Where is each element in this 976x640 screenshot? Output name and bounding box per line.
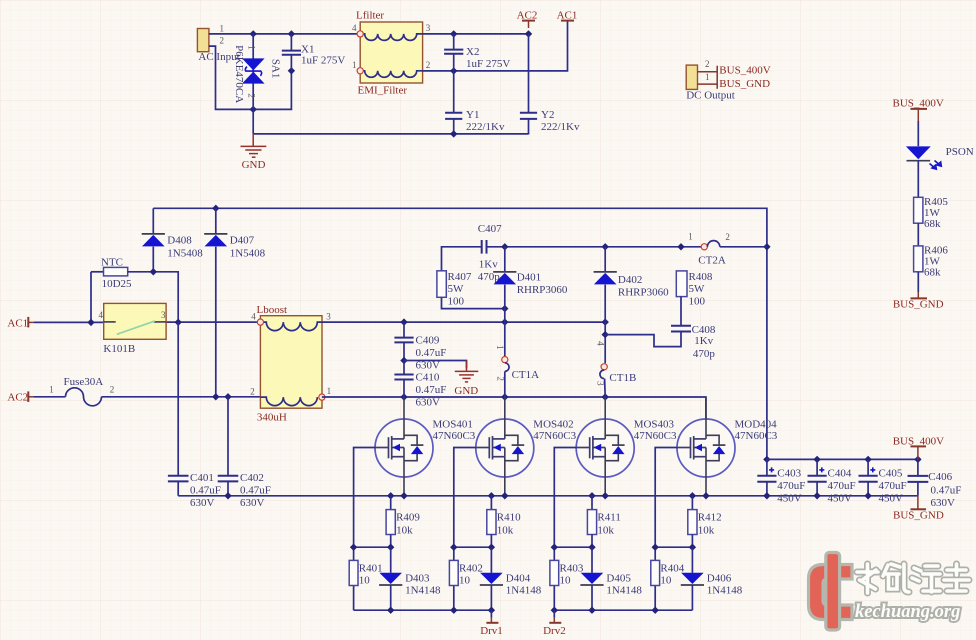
svg-text:10k: 10k	[698, 524, 715, 536]
current transformer CT1B	[601, 364, 607, 370]
svg-text:1N5408: 1N5408	[167, 247, 203, 259]
resistor R409 10k	[390, 496, 392, 510]
diode D405 1N4148	[591, 547, 593, 573]
svg-text:C403: C403	[777, 468, 801, 480]
svg-text:2: 2	[220, 36, 225, 46]
junction R404 column on Drv2 rail	[652, 607, 659, 614]
svg-text:MOS401: MOS401	[433, 419, 473, 431]
wire R412 bottom to gate node	[691, 535, 693, 548]
capacitor Y2	[528, 34, 530, 113]
power port BUS_GND right column	[917, 292, 919, 298]
junction X2 bottom	[450, 67, 457, 74]
junction X2 top	[450, 30, 457, 37]
resistor R411 10k	[591, 496, 593, 510]
svg-text:68k: 68k	[924, 267, 941, 279]
svg-text:GND: GND	[454, 385, 478, 397]
svg-text:0.47uF: 0.47uF	[240, 485, 271, 497]
wire R410 bottom to gate node	[490, 535, 492, 548]
resistor R402 10 gate resistor	[449, 560, 458, 585]
connector DC Output	[686, 65, 697, 89]
svg-text:3: 3	[595, 381, 605, 386]
svg-text:BUS_400V: BUS_400V	[893, 98, 944, 110]
svg-text:D404: D404	[506, 572, 531, 584]
diode D404 1N4148	[490, 547, 492, 573]
svg-text:470uF: 470uF	[777, 480, 805, 492]
junction D401/CT1A column on pin3 wire	[501, 318, 508, 325]
capacitor C403 470uF electrolytic	[766, 459, 768, 475]
junction gate node 2 left	[450, 544, 457, 551]
svg-text:630V: 630V	[416, 396, 441, 408]
junction gate node 4 left	[652, 544, 659, 551]
svg-text:R402: R402	[459, 562, 483, 574]
wire snubber cathode rail with C407 and CT2A	[442, 247, 767, 271]
resistor R406	[914, 246, 923, 272]
svg-text:4: 4	[352, 23, 357, 33]
junction D407 anode on AC2	[212, 393, 219, 400]
wire AC1 to relay pin4	[34, 321, 104, 323]
svg-text:R403: R403	[560, 562, 584, 574]
pin 1 of DC Output	[698, 83, 718, 85]
pin 4 of Lfilter with dot	[357, 31, 363, 37]
junction D402 cathode on snubber rail	[602, 243, 609, 250]
svg-text:R409: R409	[396, 512, 420, 524]
svg-text:68k: 68k	[924, 218, 941, 230]
svg-text:2: 2	[725, 232, 730, 242]
svg-text:450V: 450V	[828, 493, 853, 505]
capacitor C408	[671, 325, 691, 327]
wire drive rail 2 (Drv2)	[554, 609, 692, 611]
resistor R410 10k	[490, 496, 492, 510]
resistor R403 10 gate resistor	[550, 560, 559, 585]
junction R411 top on source rail	[588, 492, 595, 499]
capacitor C405 470uF electrolytic	[867, 459, 869, 475]
wire main drain rail from Lboost pin1	[322, 397, 706, 419]
net label bar of DC Output	[716, 66, 718, 89]
svg-text:NTC: NTC	[101, 256, 123, 268]
svg-text:3: 3	[326, 311, 331, 321]
wire bulk cap positive rail	[767, 458, 918, 460]
junction C404 bottom	[813, 492, 820, 499]
svg-text:3: 3	[161, 310, 166, 320]
junction Y1 bottom on ground rail	[450, 130, 457, 137]
svg-text:222/1Kv: 222/1Kv	[541, 121, 580, 133]
wire top bus rail from D408 to right vertical	[153, 208, 767, 459]
svg-text:5W: 5W	[448, 283, 465, 295]
svg-text:0.47uF: 0.47uF	[416, 384, 447, 396]
capacitor C410	[403, 361, 405, 375]
svg-text:C406: C406	[928, 471, 952, 483]
junction R402 column on Drv1 rail	[450, 607, 457, 614]
junction R412 top on source rail	[689, 492, 696, 499]
svg-text:MOD404: MOD404	[735, 419, 778, 431]
svg-text:450V: 450V	[777, 493, 802, 505]
power port BUS_GND at bulk caps	[917, 496, 919, 510]
svg-text:47N60C3: 47N60C3	[634, 430, 677, 442]
junction gate node 1 right	[387, 544, 394, 551]
svg-text:D401: D401	[517, 272, 541, 284]
svg-text:D406: D406	[707, 572, 732, 584]
junction Drv1 stub	[488, 607, 495, 614]
svg-text:C407: C407	[478, 223, 502, 235]
svg-text:1W: 1W	[924, 207, 941, 219]
winding bottom of Lfilter	[363, 71, 422, 78]
svg-text:R404: R404	[660, 562, 684, 574]
winding top of Lfilter	[363, 34, 422, 41]
junction MOS403 source on source rail	[602, 492, 609, 499]
svg-text:10: 10	[359, 574, 371, 586]
svg-text:R407: R407	[448, 271, 472, 283]
pin 1 of Lboost with dot	[319, 394, 325, 400]
svg-text:100: 100	[689, 296, 706, 308]
svg-text:C408: C408	[692, 324, 716, 336]
watermark kechuang logo	[809, 553, 853, 631]
svg-text:1: 1	[495, 345, 505, 350]
wire relay pin3 to Lboost pin4	[166, 321, 257, 323]
svg-text:1N4148: 1N4148	[506, 585, 542, 597]
current transformer CT1A	[502, 357, 508, 363]
svg-text:C401: C401	[190, 472, 214, 484]
diode D408 1N5408	[152, 208, 154, 233]
junction C408 branch on D402 column	[602, 331, 609, 338]
svg-text:Lfilter: Lfilter	[356, 10, 384, 22]
svg-text:470p: 470p	[693, 348, 716, 360]
TVS SA1 bidirectional suppressor	[252, 34, 254, 110]
junction gate node 4 right	[689, 544, 696, 551]
svg-text:1Kv: 1Kv	[479, 259, 498, 271]
svg-text:10: 10	[459, 574, 471, 586]
pin 2 of DC Output	[698, 71, 718, 73]
svg-text:1: 1	[220, 24, 225, 34]
resistor R401 10 gate resistor	[349, 560, 358, 585]
svg-text:CT1A: CT1A	[512, 369, 540, 381]
svg-text:Y2: Y2	[541, 109, 554, 121]
junction D407 top	[212, 205, 219, 212]
svg-text:10k: 10k	[497, 524, 514, 536]
wire gate of MOS401 down to drive network	[354, 448, 375, 611]
wire R411 bottom to gate node	[591, 535, 593, 548]
junction C405 bottom	[864, 492, 871, 499]
svg-text:Lboost: Lboost	[257, 304, 288, 316]
svg-text:D403: D403	[405, 572, 430, 584]
wire AC2 to fuse	[34, 396, 66, 398]
junction C406/BUS_400V top	[914, 456, 921, 463]
junction D402 column on pin3 wire	[602, 318, 609, 325]
transformer Lfilter EMI filter	[360, 22, 422, 83]
wire R409 bottom to gate node	[390, 535, 392, 548]
svg-text:C405: C405	[879, 468, 903, 480]
svg-text:1N4148: 1N4148	[405, 585, 441, 597]
junction NTC right / C401 tap on AC1	[175, 319, 182, 326]
svg-text:1: 1	[246, 45, 256, 50]
svg-text:R411: R411	[597, 512, 620, 524]
svg-text:BUS_400V: BUS_400V	[719, 65, 770, 77]
resistor R405	[914, 197, 923, 223]
wire mid node to GND symbol	[404, 361, 467, 369]
svg-text:X2: X2	[466, 46, 479, 58]
junction MOS401 drain / C410	[400, 393, 407, 400]
svg-text:Y1: Y1	[466, 109, 479, 121]
wire source/ground bus rail	[178, 495, 918, 497]
junction AC2 column	[525, 30, 532, 37]
svg-text:SA1: SA1	[270, 59, 282, 79]
capacitor C409	[403, 322, 405, 337]
svg-text:1: 1	[352, 60, 357, 70]
svg-text:C402: C402	[240, 472, 264, 484]
transistor MOS401 47N60C3 power MOSFET	[375, 397, 433, 496]
wire Lboost pin3 to D402 column	[322, 321, 605, 323]
capacitor X2	[453, 34, 455, 49]
wire AC input pin1 to Lfilter pin4 (with X1, SA1 taps)	[209, 33, 357, 35]
diode D403 1N4148	[390, 547, 392, 573]
svg-text:D402: D402	[618, 274, 642, 286]
junction NTC left on AC1	[87, 319, 94, 326]
svg-text:470uF: 470uF	[828, 480, 856, 492]
junction C409-C410 midpoint	[400, 357, 407, 364]
wire R408 to C408	[680, 297, 682, 326]
svg-text:AC2: AC2	[7, 391, 28, 403]
svg-text:R401: R401	[359, 562, 383, 574]
wire BUS_400V to LED	[917, 121, 919, 146]
diode D401 RHRP3060	[504, 247, 506, 272]
svg-text:MOS403: MOS403	[634, 419, 675, 431]
capacitor C404 470uF electrolytic	[816, 459, 818, 475]
svg-text:D408: D408	[167, 235, 192, 247]
svg-text:10k: 10k	[396, 524, 413, 536]
junction D408 anode on NTC wire	[150, 268, 157, 275]
wire Lfilter pin3 to AC2 node	[423, 33, 529, 35]
svg-text:BUS_GND: BUS_GND	[893, 299, 944, 311]
junction gate node 3 left	[551, 544, 558, 551]
svg-text:2: 2	[705, 59, 710, 69]
power port Drv1	[490, 610, 492, 617]
svg-text:10D25: 10D25	[102, 278, 132, 290]
svg-text:10: 10	[560, 574, 572, 586]
svg-text:100: 100	[448, 296, 465, 308]
capacitor C401	[177, 322, 179, 475]
junction gate node 3 right	[588, 544, 595, 551]
svg-text:450V: 450V	[879, 493, 904, 505]
fuse Fuse30A	[66, 388, 102, 406]
wire AC input pin2 loop down to SA1/X1 bottom	[209, 46, 292, 109]
pin 1 of Lfilter with dot	[357, 68, 363, 74]
wire gate of MOS403 down to drive network	[554, 448, 576, 611]
svg-text:P6KE470CA: P6KE470CA	[233, 45, 245, 103]
ground GND symbol middle	[466, 361, 468, 372]
svg-text:MOS402: MOS402	[533, 419, 573, 431]
svg-text:RHRP3060: RHRP3060	[517, 284, 568, 296]
junction MOS402 source on source rail	[501, 492, 508, 499]
svg-text:1Kv: 1Kv	[694, 335, 713, 347]
junction R407 bottom on D401 column	[501, 305, 508, 312]
svg-text:R408: R408	[689, 271, 713, 283]
junction gate node 2 right	[488, 544, 495, 551]
resistor R407	[437, 271, 446, 298]
svg-text:2: 2	[250, 386, 255, 396]
winding bottom of Lboost	[260, 397, 317, 406]
svg-text:47N60C3: 47N60C3	[735, 430, 778, 442]
junction C405 top	[864, 456, 871, 463]
svg-text:GND: GND	[242, 159, 266, 171]
junction C402 bottom on source rail	[224, 492, 231, 499]
svg-text:1uF 275V: 1uF 275V	[466, 58, 510, 70]
wire C408 bottom jog to D402 anode	[605, 332, 681, 347]
junction R409 top on source rail	[387, 492, 394, 499]
svg-text:470uF: 470uF	[879, 480, 907, 492]
svg-text:2: 2	[110, 385, 115, 395]
svg-text:kechuang.org: kechuang.org	[855, 602, 960, 622]
svg-text:630V: 630V	[240, 497, 265, 509]
capacitor Y1	[453, 71, 455, 113]
wire fuse to Lboost pin2	[102, 396, 261, 398]
svg-text:2: 2	[246, 93, 256, 98]
wire R406 to BUS_GND	[917, 272, 919, 292]
pin 4 of Lboost with dot	[257, 319, 263, 325]
relay K101B	[104, 303, 166, 339]
junction MOS402 drain / CT1A	[501, 393, 508, 400]
junction C403 bottom	[763, 492, 770, 499]
wire NTC left leg down to AC1 line	[90, 272, 92, 323]
svg-text:Drv2: Drv2	[543, 625, 566, 637]
junction MOS403 drain / CT1B	[602, 393, 609, 400]
resistor R404 10 gate resistor	[651, 560, 660, 585]
capacitor C406 0.47uF	[917, 459, 919, 475]
junction Drv2 stub	[551, 607, 558, 614]
svg-text:PSON: PSON	[946, 146, 974, 158]
junction C404 top	[813, 456, 820, 463]
junction D405 anode on Drv2 rail	[588, 607, 595, 614]
svg-text:10k: 10k	[597, 524, 614, 536]
junction D401 cathode on snubber rail	[501, 243, 508, 250]
svg-text:47N60C3: 47N60C3	[433, 430, 476, 442]
svg-text:4: 4	[595, 341, 605, 346]
svg-text:5W: 5W	[689, 283, 706, 295]
wire gate of MOD404 down to drive network	[655, 448, 677, 611]
svg-text:EMI_Filter: EMI_Filter	[358, 85, 408, 97]
svg-text:CT2A: CT2A	[698, 255, 726, 267]
junction MOS401 source on source rail	[400, 492, 407, 499]
svg-text:R412: R412	[698, 512, 722, 524]
diode D402 RHRP3060	[604, 247, 606, 272]
svg-text:630V: 630V	[190, 497, 215, 509]
junction C409 top	[400, 318, 407, 325]
svg-text:0.47uF: 0.47uF	[190, 485, 221, 497]
svg-text:C404: C404	[828, 468, 852, 480]
transistor MOD404 47N60C3 power MOSFET	[677, 397, 735, 496]
wire R407 bottom to D401 anode node	[442, 297, 505, 308]
junction SA1 bottom	[250, 106, 257, 113]
svg-text:47N60C3: 47N60C3	[533, 430, 576, 442]
svg-text:1N4148: 1N4148	[707, 585, 743, 597]
capacitor C407 plates	[481, 240, 483, 254]
svg-text:4: 4	[251, 311, 256, 321]
svg-text:2: 2	[426, 60, 431, 70]
svg-text:1: 1	[327, 386, 332, 396]
svg-text:340uH: 340uH	[257, 412, 287, 424]
svg-text:1N4148: 1N4148	[606, 585, 642, 597]
svg-text:CT1B: CT1B	[609, 372, 636, 384]
svg-text:630V: 630V	[931, 497, 956, 509]
wire gate of MOS402 down to drive network	[454, 448, 476, 611]
junction D403 anode on Drv1 rail	[387, 607, 394, 614]
current transformer CT2A	[701, 244, 707, 250]
svg-text:AC1: AC1	[7, 317, 28, 329]
svg-text:BUS_GND: BUS_GND	[719, 78, 770, 90]
junction X1 bottom / Lfilter pin1 net	[288, 67, 295, 74]
wire drive rail 1 (Drv1)	[354, 609, 492, 611]
svg-text:10: 10	[660, 574, 672, 586]
svg-text:1: 1	[49, 385, 54, 395]
capacitor X1	[290, 34, 292, 50]
svg-text:4: 4	[99, 310, 104, 320]
wire LED to R405	[917, 161, 919, 198]
wire Lfilter pin2 to AC1 port	[423, 21, 568, 71]
svg-text:DC Output: DC Output	[686, 90, 735, 102]
svg-text:Drv1: Drv1	[480, 625, 503, 637]
junction right vertical to cap rail	[763, 456, 770, 463]
transistor MOS402 47N60C3 power MOSFET	[476, 397, 534, 496]
svg-text:BUS_GND: BUS_GND	[893, 509, 944, 521]
svg-text:D405: D405	[606, 572, 631, 584]
svg-text:RHRP3060: RHRP3060	[618, 286, 669, 298]
junction R410 top on source rail	[488, 492, 495, 499]
diode D406 1N4148	[691, 547, 693, 573]
svg-text:Fuse30A: Fuse30A	[64, 376, 104, 388]
junction X1 top	[288, 30, 295, 37]
winding top of Lboost	[264, 322, 323, 331]
ground GND symbol top-left	[252, 134, 254, 146]
svg-text:2: 2	[496, 376, 506, 381]
svg-text:D407: D407	[230, 235, 255, 247]
svg-text:R410: R410	[497, 512, 521, 524]
svg-text:1: 1	[705, 72, 710, 82]
connector J? AC Input	[197, 29, 209, 52]
resistor R412 10k	[691, 496, 693, 510]
svg-text:C410: C410	[416, 371, 440, 383]
wire R405 to R406	[917, 223, 919, 246]
junction CT2A pin2 on right vertical	[763, 243, 770, 250]
junction SA1 top	[250, 30, 257, 37]
watermark text kechuang 科创论坛	[855, 564, 969, 622]
svg-text:1: 1	[688, 232, 693, 242]
svg-text:1W: 1W	[924, 255, 941, 267]
capacitor C402	[227, 397, 229, 475]
diode D407 1N5408	[215, 208, 217, 233]
svg-text:222/1Kv: 222/1Kv	[466, 121, 505, 133]
svg-text:K101B: K101B	[103, 343, 135, 355]
junction gate node 1 left	[350, 544, 357, 551]
svg-text:0.47uF: 0.47uF	[416, 347, 447, 359]
svg-text:C409: C409	[416, 334, 440, 346]
resistor R408	[676, 271, 687, 297]
junction MOD404 source on source rail	[702, 492, 709, 499]
LED PSON	[906, 146, 931, 159]
transistor MOS403 47N60C3 power MOSFET	[576, 397, 634, 496]
junction R408 top on snubber rail	[677, 243, 684, 250]
svg-text:1N5408: 1N5408	[230, 247, 266, 259]
inductor Lboost 340uH	[260, 316, 322, 409]
svg-text:3: 3	[426, 23, 431, 33]
svg-text:1uF 275V: 1uF 275V	[301, 55, 345, 67]
power port Drv2	[553, 610, 555, 617]
svg-text:0.47uF: 0.47uF	[931, 484, 962, 496]
wire Y-cap ground rail	[253, 109, 528, 134]
LED arrows	[930, 164, 937, 170]
junction C402 tap on AC2	[224, 393, 231, 400]
